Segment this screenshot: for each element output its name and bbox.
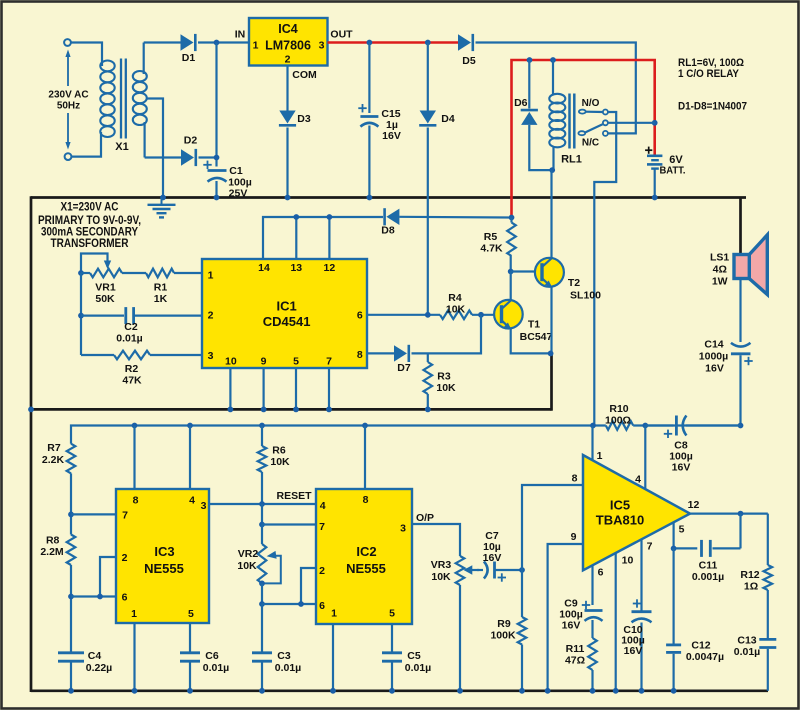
transistor T2 SL100 — [511, 170, 601, 353]
svg-text:4: 4 — [189, 495, 195, 507]
svg-text:IN: IN — [235, 29, 246, 41]
IC3 pin 1 — [131, 608, 137, 620]
junction: R6 top — [259, 423, 265, 429]
svg-text:IC2: IC2 — [356, 544, 376, 559]
svg-text:D3: D3 — [297, 113, 311, 125]
IC3 pin 4 — [189, 495, 195, 507]
svg-text:1 C/O RELAY: 1 C/O RELAY — [678, 68, 740, 80]
relay RL1 — [549, 60, 582, 170]
svg-text:5: 5 — [293, 356, 299, 368]
svg-text:10K: 10K — [436, 382, 456, 394]
wire: R4 to T1 base — [472, 314, 503, 316]
junction: pin12 node — [738, 511, 744, 549]
junction: relay coil / D6 / T2 collector — [549, 167, 555, 173]
svg-text:R2: R2 — [125, 363, 139, 375]
junction: IC2 pin6 node — [259, 601, 316, 607]
svg-text:R5: R5 — [484, 231, 498, 243]
junction: C2 tap — [78, 313, 84, 319]
svg-text:5: 5 — [389, 608, 395, 620]
junction: D3 on 0V rail — [285, 195, 291, 201]
wire: speaker to C14 — [739, 279, 741, 343]
svg-text:4: 4 — [635, 474, 641, 486]
svg-text:8: 8 — [572, 473, 578, 485]
junction: C4 on bottom rail — [68, 688, 74, 694]
op-amp U5: IC5 TBA810 amplifier — [583, 455, 690, 570]
junction: C7 / IC5 pin8 / R9 — [519, 567, 525, 573]
capacitor C6 — [180, 650, 229, 691]
resistor R6 — [258, 426, 290, 505]
svg-text:4: 4 — [320, 500, 326, 512]
svg-text:16V: 16V — [705, 363, 724, 375]
svg-text:1Ω: 1Ω — [744, 581, 758, 593]
svg-text:6: 6 — [357, 310, 363, 322]
svg-text:10K: 10K — [446, 304, 466, 316]
svg-text:OUT: OUT — [330, 29, 353, 41]
svg-text:16V: 16V — [483, 552, 502, 564]
relay contact N/C circle — [603, 131, 608, 136]
wire: mains bottom terminal to primary — [72, 132, 102, 157]
svg-text:0.01µ: 0.01µ — [734, 646, 761, 658]
diode D1 — [144, 34, 249, 64]
resistor R3 — [424, 353, 457, 409]
svg-text:R9: R9 — [497, 618, 511, 630]
svg-text:8: 8 — [133, 495, 139, 507]
svg-text:2: 2 — [285, 54, 291, 66]
svg-text:COM: COM — [292, 69, 317, 81]
junction: centre tap on 0V rail — [160, 195, 166, 201]
svg-text:R1: R1 — [154, 282, 168, 294]
wire: relay pole to battery plus — [608, 122, 655, 124]
svg-text:C5: C5 — [407, 650, 421, 662]
wire: IC1 pin7 riser — [326, 368, 332, 412]
wire: IC5 pin8 input — [522, 485, 583, 570]
wire: D4 cathode down to IC1 pin6 node — [427, 128, 429, 315]
resistor R12 — [740, 514, 772, 593]
wire: pin1 line — [81, 272, 202, 274]
svg-text:6: 6 — [319, 600, 325, 612]
ground — [148, 198, 176, 218]
wire: IC1 supply rail with pin risers — [263, 214, 383, 259]
junction: C15 on 0V rail — [367, 195, 373, 201]
junction: C10 on bottom rail — [639, 688, 645, 694]
op-amp U1: IC4 LM7806 voltage regulator — [249, 18, 328, 66]
svg-text:N/C: N/C — [582, 138, 599, 149]
svg-text:C13: C13 — [737, 635, 756, 647]
IC4 pin 3 — [319, 40, 325, 52]
junction: VR2 wiper tie — [259, 581, 265, 587]
svg-text:RESET: RESET — [276, 490, 312, 502]
IC5 pin 12 label — [688, 499, 700, 511]
capacitor C3 — [252, 650, 301, 691]
wire: 6V line down to C15 — [368, 43, 370, 114]
junction: R6 on RESET line — [259, 501, 265, 507]
svg-text:1: 1 — [208, 270, 214, 282]
svg-text:IC1: IC1 — [276, 299, 296, 314]
IC3 pin 3 — [201, 500, 207, 512]
svg-text:10K: 10K — [431, 571, 451, 583]
svg-text:1W: 1W — [712, 276, 728, 288]
wire: IC2 output O/P — [412, 512, 460, 556]
svg-text:X1=230V AC: X1=230V AC — [61, 202, 119, 214]
svg-text:0.01µ: 0.01µ — [405, 662, 432, 674]
junction: VR1 wiper node — [78, 270, 84, 276]
diode D2 — [145, 135, 217, 167]
capacitor C14 — [699, 339, 753, 375]
IC5 pin 8 label — [572, 473, 578, 485]
svg-text:0.01µ: 0.01µ — [275, 662, 302, 674]
potentiometer VR1 — [81, 254, 122, 306]
svg-text:7: 7 — [326, 356, 332, 368]
svg-text:TBA810: TBA810 — [596, 513, 644, 528]
svg-text:SL100: SL100 — [570, 290, 601, 302]
svg-text:7: 7 — [122, 510, 128, 522]
capacitor C5 — [382, 650, 431, 691]
IC1 pin 1 — [208, 270, 214, 282]
capacitor C11 — [674, 540, 741, 583]
op-amp U4: IC2 NE555 timer — [316, 489, 412, 624]
svg-text:3: 3 — [319, 40, 325, 52]
svg-text:1: 1 — [597, 450, 603, 462]
IC5 pin 6 label — [598, 567, 604, 579]
svg-text:C1: C1 — [229, 165, 243, 177]
svg-text:C3: C3 — [277, 650, 291, 662]
junction: pin5 / C11 / C12 node — [671, 546, 677, 552]
wire: IC3 pin2 jog — [97, 557, 116, 599]
label: RL1=6V, 100&#937; 1 C/O RELAY — [678, 57, 744, 80]
svg-text:16V: 16V — [624, 645, 643, 657]
svg-text:R4: R4 — [448, 292, 462, 304]
capacitor C7 — [477, 530, 522, 582]
svg-text:R3: R3 — [437, 371, 451, 383]
svg-text:D5: D5 — [462, 55, 476, 67]
svg-text:PRIMARY TO 9V-0-9V,: PRIMARY TO 9V-0-9V, — [38, 215, 141, 227]
svg-text:1: 1 — [331, 608, 337, 620]
svg-text:5: 5 — [679, 524, 685, 536]
svg-text:3: 3 — [400, 523, 406, 535]
IC1 pin 3 — [208, 350, 214, 362]
wire: black bus bottom rail — [31, 689, 768, 692]
wire: IC3 pin1 to bottom rail — [132, 623, 138, 694]
svg-text:C2: C2 — [124, 321, 138, 333]
svg-text:C11: C11 — [699, 560, 718, 572]
svg-text:R10: R10 — [609, 403, 628, 415]
svg-text:4Ω: 4Ω — [713, 264, 727, 276]
wire: IC2 pin1 to bottom rail — [330, 624, 336, 694]
svg-text:6: 6 — [598, 567, 604, 579]
wire: IC5 pin10 — [613, 553, 619, 693]
IC5 pin 5 label — [679, 524, 685, 536]
wire: battery positive red bus — [512, 60, 655, 218]
svg-text:IC3: IC3 — [154, 544, 174, 559]
svg-text:NE555: NE555 — [346, 561, 386, 576]
svg-text:D8: D8 — [381, 225, 395, 237]
svg-text:D1-D8=1N4007: D1-D8=1N4007 — [678, 101, 747, 113]
svg-text:0.01µ: 0.01µ — [203, 662, 230, 674]
IC3 pin 6 — [122, 592, 128, 604]
diode D6 — [514, 60, 552, 170]
wire: RESET line IC3 pin3 to IC2 pin4 — [209, 503, 316, 505]
svg-text:16V: 16V — [562, 620, 581, 632]
svg-text:2.2M: 2.2M — [40, 546, 64, 558]
junction: D2 cathode node — [214, 155, 220, 161]
svg-text:2: 2 — [208, 310, 214, 322]
svg-text:2: 2 — [122, 552, 128, 564]
svg-text:0.0047µ: 0.0047µ — [686, 651, 724, 663]
svg-text:C14: C14 — [704, 339, 723, 351]
svg-text:25V: 25V — [229, 188, 248, 200]
IC1 pin 13 — [290, 262, 302, 274]
junction: IC2 pin8 riser — [362, 423, 368, 489]
IC2 pin 3 — [400, 523, 406, 535]
relay armature — [578, 120, 608, 148]
label: RESET — [276, 490, 312, 502]
junction: C1 on 0V rail — [214, 195, 220, 201]
IC5 pin 7 label — [647, 541, 653, 553]
junction: C15 tap on 6V line — [367, 40, 373, 46]
resistor R10 — [605, 403, 633, 430]
svg-text:3: 3 — [208, 350, 214, 362]
svg-text:16V: 16V — [382, 130, 401, 142]
diode D8 — [381, 208, 511, 236]
svg-text:C12: C12 — [691, 640, 710, 652]
svg-text:BC547: BC547 — [520, 331, 553, 343]
wire: IC2 pin5 to C5 — [391, 624, 393, 653]
IC2 pin 7 — [319, 521, 325, 533]
IC4 pin 2 — [285, 54, 291, 66]
svg-text:T1: T1 — [528, 319, 540, 331]
svg-text:O/P: O/P — [416, 512, 434, 524]
junction: battery minus on 0V rail — [652, 195, 658, 201]
IC1 pin 7 — [326, 356, 332, 368]
svg-text:R6: R6 — [272, 445, 286, 457]
wire: R7 to R8 — [70, 473, 72, 534]
svg-text:D6: D6 — [514, 97, 528, 109]
IC3 pin 5 — [188, 608, 194, 620]
svg-text:12: 12 — [324, 262, 336, 274]
svg-text:IC5: IC5 — [610, 498, 630, 513]
svg-text:47Ω: 47Ω — [565, 655, 585, 667]
svg-text:1: 1 — [131, 608, 137, 620]
wire: black bus mid rail (box bottom) — [28, 407, 551, 413]
junction: relay pole to battery — [652, 120, 658, 126]
IC2 pin 2 — [319, 565, 325, 577]
wire: IC1 pin10 riser — [228, 368, 234, 412]
wire: left black bus edge — [30, 196, 33, 692]
wire: D4 column — [427, 43, 429, 111]
wire: VR2 node to C3 — [261, 604, 263, 653]
IC5 pin 4 label — [635, 474, 641, 486]
wire: IC4 COM to D3 — [286, 66, 288, 111]
svg-text:VR1: VR1 — [95, 282, 116, 294]
IC2 pin 4 — [320, 500, 326, 512]
svg-text:1: 1 — [253, 40, 259, 52]
svg-text:C4: C4 — [88, 650, 102, 662]
IC1 pin 10 — [225, 356, 237, 368]
capacitor C2 — [81, 307, 202, 344]
svg-text:1K: 1K — [154, 293, 168, 305]
svg-text:LM7806: LM7806 — [265, 39, 311, 53]
capacitor C15 — [358, 104, 401, 198]
svg-text:2.2K: 2.2K — [42, 454, 65, 466]
IC1 pin 9 — [261, 356, 267, 368]
wire: IC5 pin6 — [591, 565, 593, 605]
svg-text:4.7K: 4.7K — [480, 243, 503, 255]
svg-text:BATT.: BATT. — [660, 165, 686, 177]
svg-text:LS1: LS1 — [710, 252, 729, 264]
svg-text:TRANSFORMER: TRANSFORMER — [51, 238, 130, 250]
junction: C14 / C8 corner — [738, 423, 744, 429]
label: OUT — [330, 29, 353, 41]
wire: D5 cathode to relay N/C contact — [476, 43, 636, 134]
wire: IC1 pin9 riser — [261, 368, 267, 412]
resistor R11 — [565, 620, 597, 691]
svg-text:10K: 10K — [270, 456, 290, 468]
terminal: mains bottom — [65, 153, 72, 160]
wire: mains top terminal to primary — [71, 43, 102, 67]
resistor R8 — [40, 535, 75, 566]
junction: IC2 pin7 node — [259, 522, 316, 528]
wire: VR3 bottom to rail — [457, 585, 463, 694]
wire: IC5 pin7 — [640, 540, 642, 612]
resistor R5 — [480, 218, 515, 272]
wire: 0V black bus top rail — [31, 196, 746, 199]
junction: IC5 pin1 / N-O line — [590, 423, 596, 429]
resistor R9 — [490, 570, 526, 691]
wire: VR2 to pin6 line — [261, 583, 263, 604]
wire: C12 column — [672, 548, 674, 645]
svg-text:2: 2 — [319, 565, 325, 577]
capacitor C8 — [645, 416, 740, 474]
svg-text:D7: D7 — [397, 362, 411, 374]
IC3 pin 2 — [122, 552, 128, 564]
wire: R6 node down to pin7 line — [261, 504, 263, 525]
terminal: mains top — [64, 39, 71, 46]
IC2 pin 1 — [331, 608, 337, 620]
svg-text:100Ω: 100Ω — [605, 415, 631, 427]
diode D3 — [279, 111, 311, 198]
wire: IC1 pin6 line — [367, 314, 440, 316]
wire: C14 to supply rail corner — [739, 355, 741, 425]
svg-text:7: 7 — [647, 541, 653, 553]
label: COM — [292, 69, 317, 81]
wire: IC5 pin9 — [545, 544, 583, 694]
IC2 pin 5 — [389, 608, 395, 620]
IC3 pin 7 — [122, 510, 128, 522]
svg-text:T2: T2 — [568, 277, 580, 289]
svg-text:7: 7 — [319, 521, 325, 533]
wire: rectifier output down to C1 — [215, 43, 217, 167]
wire: IC1 pin5 riser — [293, 368, 299, 412]
svg-text:5: 5 — [188, 608, 194, 620]
relay contact N/O — [579, 98, 608, 115]
capacitor C12 — [666, 640, 724, 691]
svg-text:D4: D4 — [441, 113, 455, 125]
op-amp U3: IC3 NE555 timer — [116, 489, 209, 623]
svg-text:10: 10 — [225, 356, 237, 368]
junction: D1 cathode node — [214, 40, 220, 46]
IC1 pin 6 — [357, 310, 363, 322]
svg-text:VR3: VR3 — [431, 559, 452, 571]
svg-text:IC4: IC4 — [278, 22, 298, 36]
potentiometer VR3 — [431, 556, 479, 585]
potentiometer VR2 — [237, 525, 280, 584]
svg-text:13: 13 — [290, 262, 302, 274]
resistor R4 — [440, 292, 472, 319]
svg-text:R7: R7 — [47, 442, 61, 454]
svg-text:0.001µ: 0.001µ — [692, 571, 724, 583]
label: X1 transformer note — [38, 202, 141, 251]
svg-text:230V AC: 230V AC — [48, 90, 88, 101]
wire: relay N/O to amplifier supply — [594, 112, 616, 426]
svg-text:3: 3 — [201, 500, 207, 512]
diode D4 — [419, 111, 455, 126]
svg-text:9: 9 — [571, 531, 577, 543]
svg-text:8: 8 — [357, 349, 363, 361]
svg-text:0.01µ: 0.01µ — [116, 333, 143, 345]
svg-text:9: 9 — [261, 356, 267, 368]
capacitor C4 — [58, 650, 112, 691]
junction: D4 joins pin6 line — [425, 312, 431, 318]
svg-text:1000µ: 1000µ — [699, 351, 728, 363]
IC5 pin 9 label — [571, 531, 577, 543]
IC4 pin 1 — [253, 40, 259, 52]
wire: left column VR1 to R2 — [80, 273, 82, 355]
wire: IC5 pin1 riser — [591, 426, 593, 460]
svg-text:D1: D1 — [182, 52, 196, 64]
wire: R12 to C13 — [767, 590, 769, 639]
junction: C5 on bottom rail — [389, 688, 395, 694]
junction: IC3 pin8 riser — [132, 423, 138, 489]
svg-text:X1: X1 — [115, 141, 128, 153]
wire: IC5 pin12 output — [690, 512, 768, 514]
svg-text:0.22µ: 0.22µ — [86, 662, 113, 674]
IC1 pin 8 — [357, 349, 363, 361]
junction: relay coil on red bus — [550, 57, 556, 63]
IC1 pin 2 — [208, 310, 214, 322]
wire: IC3 pin5 to C6 — [189, 623, 191, 653]
capacitor C13 — [734, 635, 777, 691]
junction: R9 on bottom rail — [519, 688, 525, 694]
label: IN — [235, 29, 246, 41]
op-amp U2: IC1 CD4541 timer — [202, 259, 367, 368]
wire: IC5 pin4 riser — [644, 426, 646, 490]
svg-text:10: 10 — [622, 555, 634, 567]
capacitor C1 — [203, 161, 251, 200]
IC3 pin 8 — [133, 495, 139, 507]
svg-text:8: 8 — [363, 494, 369, 506]
svg-text:10K: 10K — [237, 560, 257, 572]
svg-text:47K: 47K — [122, 375, 142, 387]
junction: IC3 pin4 riser — [187, 423, 193, 489]
junction: C3 on bottom rail — [259, 688, 265, 694]
resistor R2 — [81, 351, 202, 387]
junction: IC3 pin6 node — [68, 594, 116, 600]
IC5 pin 10 label — [622, 555, 634, 567]
junction: T1 base node — [478, 312, 484, 318]
junction: R5 bottom / T1 collector / T2 base — [508, 269, 514, 275]
junction: R5 top / red bus end — [509, 215, 515, 221]
wire: IC5 pin5 — [672, 523, 674, 549]
diode D7 — [367, 315, 481, 374]
transformer X1 — [100, 43, 163, 198]
svg-text:16V: 16V — [672, 462, 691, 474]
svg-text:C6: C6 — [205, 650, 219, 662]
wire: R8 to C4 — [70, 565, 72, 653]
wire: bottom supply rail — [71, 426, 741, 444]
transistor T1 BC547 — [494, 272, 552, 354]
diode D5 — [458, 34, 476, 67]
resistor R7 — [42, 442, 75, 473]
